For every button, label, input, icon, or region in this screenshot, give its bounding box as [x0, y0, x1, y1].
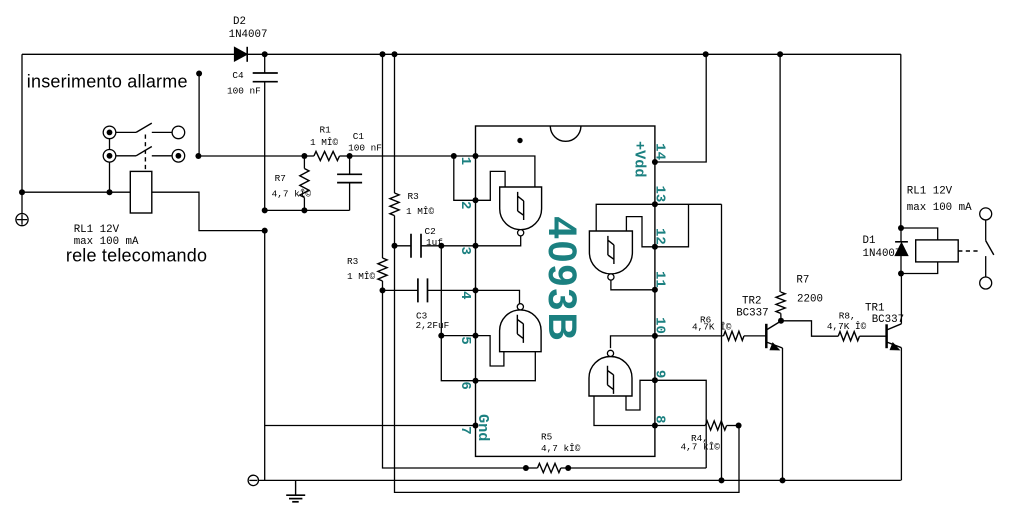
value label 1N4007 of D2 [229, 29, 268, 41]
svg-text:4,7 kÎ©: 4,7 kÎ© [272, 188, 312, 199]
wire gate D output to pin 10 [611, 336, 655, 348]
wire rail A mid segment [383, 281, 526, 468]
svg-text:TR2: TR2 [742, 295, 761, 307]
diode D2 1N4007 [234, 47, 247, 62]
wire TR1 collector up to D1 [900, 274, 902, 324]
wire tie pins 1-2 [454, 156, 476, 200]
label D1 [863, 235, 876, 247]
svg-text:13: 13 [651, 185, 667, 202]
relay contact SW1a right terminal (open) [172, 126, 185, 139]
IC pin 14 connection dot [652, 159, 658, 165]
IC pin 6 connection dot [473, 378, 479, 384]
IC pin number 11 [651, 271, 667, 288]
svg-text:1: 1 [457, 157, 473, 165]
relay contact SW1b right terminal [172, 150, 185, 163]
junction node pin14 riser / top wire [703, 51, 709, 57]
svg-text:inserimento allarme: inserimento allarme [27, 72, 188, 92]
label C3 [416, 311, 428, 322]
label C1 [353, 131, 365, 142]
switch SW1a arm [136, 123, 152, 132]
svg-text:8: 8 [651, 415, 667, 423]
label R7 (left) [275, 173, 286, 184]
wire rail A top segment [382, 54, 384, 258]
resistor R7 4.7k vertical [300, 156, 309, 210]
svg-text:TR1: TR1 [865, 303, 884, 315]
svg-text:100 nF: 100 nF [227, 86, 261, 97]
wire gate B output to pin 4 [476, 290, 520, 303]
wire gate A output to pin 3 [476, 236, 521, 246]
resistor R6 4.7k horizontal [655, 331, 766, 340]
wire SW1b left lead [116, 155, 136, 157]
IC pin number 10 [651, 317, 667, 334]
value label 1 M-ohm of upper R3 [406, 206, 435, 217]
dashed mechanical link of relay RL1 contacts [144, 135, 146, 172]
IC pin number 5 [457, 336, 473, 344]
transistor TR2 BC337 [766, 321, 782, 350]
wire relay coil right side to C4 rail [152, 192, 265, 230]
IC pin number 2 [457, 201, 473, 209]
ground symbol [286, 480, 305, 501]
IC pin number 4 [457, 291, 473, 299]
wire D1 top to relay coil [901, 228, 938, 240]
wire SW1b left terminal down to coil wire [109, 162, 111, 192]
wire alarm input vertical [198, 74, 200, 157]
wire TR2 emitter down to 0V [782, 348, 784, 480]
junction node pins 1-2 tie [451, 153, 457, 159]
NAND gate A (pins 1,2,3) schmitt [500, 187, 542, 236]
label max 100 mA (right relay) [907, 202, 972, 214]
wire pin 9 to gate D input [626, 380, 655, 410]
wire R5 right to pin 9 drop [568, 467, 706, 469]
wire pin 9 external down to R5 line [655, 380, 706, 468]
IC pin number 14 [651, 143, 667, 160]
value label 2200 of R7 [797, 293, 823, 305]
svg-text:R3: R3 [347, 256, 359, 267]
IC +Vdd label [631, 141, 649, 177]
wire D1 bottom to relay coil [901, 262, 938, 274]
svg-text:5: 5 [457, 336, 473, 344]
svg-text:max 100 mA: max 100 mA [907, 202, 972, 214]
wire pin 6 to gate B input [476, 352, 536, 381]
IC pin 5 connection dot [473, 333, 479, 339]
junction node rail B / C2 left [392, 243, 398, 249]
value label BC337 of TR2 [736, 307, 768, 319]
svg-text:BC337: BC337 [736, 307, 768, 319]
wire pin3 net down to pins 5/6 [441, 246, 475, 381]
svg-text:2,2FuF: 2,2FuF [416, 320, 450, 331]
svg-text:1 MÎ©: 1 MÎ© [347, 271, 376, 282]
IC pin number 3 [457, 247, 473, 255]
IC U1 4093B outline [476, 126, 655, 456]
switch output contact arm [986, 241, 994, 255]
junction node rail B / top wire [392, 51, 398, 57]
junction node R7-2200 rail / top wire [777, 51, 783, 57]
junction node R5 right terminal [565, 465, 571, 471]
junction node coil return / C4 rail [262, 228, 268, 234]
capacitor C2 1uf [395, 234, 442, 258]
wire switch output to R1 and pin 1 [198, 155, 304, 157]
junction node D2 cathode / C4 [262, 51, 268, 57]
label C4 [232, 70, 244, 81]
junction node pin3 net / pin 5 wire [438, 333, 444, 339]
junction node rail A / top wire [380, 51, 386, 57]
terminal dot of alarm input wire [196, 71, 202, 77]
IC name label 4093B [540, 217, 584, 343]
svg-text:1 MÎ©: 1 MÎ© [406, 206, 435, 217]
svg-text:14: 14 [651, 143, 667, 160]
svg-text:100 nF: 100 nF [348, 143, 382, 154]
label R5 [541, 431, 553, 442]
IC pin 11 connection dot [652, 287, 658, 293]
value label 4,7 k-ohm of R4 [681, 442, 721, 453]
wire pin 12 to gate C input [626, 217, 655, 247]
svg-text:D2: D2 [233, 16, 246, 28]
svg-text:6: 6 [457, 381, 473, 389]
value label 1 M-ohm of R1 [310, 137, 339, 148]
annotation text inserimento allarme [27, 72, 188, 92]
value label 2,2FuF of C3 [416, 320, 450, 331]
wire pin 1 to gate A input [476, 156, 535, 187]
svg-text:1N4007: 1N4007 [863, 248, 902, 260]
wire pin 13 to gate C input [596, 204, 655, 231]
svg-text:1N4007: 1N4007 [229, 29, 268, 41]
svg-text:4,7 kÎ©: 4,7 kÎ© [541, 443, 581, 454]
annotation text rele telecomando [66, 246, 207, 266]
NAND gate B (pins 4,5,6) schmitt [500, 304, 541, 352]
wire pin 13 right to feedback rail [655, 203, 722, 205]
wire pin 8 to gate D input [594, 396, 655, 426]
svg-text:12: 12 [651, 228, 667, 245]
output contact bottom terminal [980, 277, 992, 289]
value label 100 nF of C1 [348, 143, 382, 154]
value label 1uf of C2 [426, 237, 443, 248]
relay contact SW1a left terminal [103, 126, 116, 139]
IC pin number 1 [457, 157, 473, 165]
svg-text:C1: C1 [353, 131, 365, 142]
label C2 [425, 226, 436, 237]
IC pin 1 connection dot [473, 153, 479, 159]
capacitor C1 100 nF [337, 156, 362, 210]
IC pin 12 connection dot [652, 244, 658, 250]
svg-text:4093B: 4093B [540, 217, 584, 343]
IC pin number 13 [651, 185, 667, 202]
dashed mechanical link of output relay [958, 250, 979, 252]
IC Gnd label [474, 414, 492, 441]
svg-text:R7: R7 [796, 275, 809, 287]
svg-text:C2: C2 [425, 226, 436, 237]
junction node rail A / C3 left [380, 287, 386, 293]
svg-text:4,7 kÎ©: 4,7 kÎ© [681, 442, 721, 453]
svg-text:7: 7 [457, 426, 473, 434]
junction node R5 left terminal [523, 465, 529, 471]
wire TR2 collector to R8 [781, 321, 838, 336]
resistor R3 1M lower (in rail A) [378, 258, 387, 281]
svg-text:2200: 2200 [797, 293, 823, 305]
resistor R4 4.7k horizontal [655, 421, 739, 430]
junction node switch common / relay coil wire [107, 189, 113, 195]
value label 100 nF of C4 [227, 86, 261, 97]
junction node R1 right / C1 top [347, 153, 353, 159]
wire pin 2 to gate A input [476, 171, 506, 200]
resistor R5 4.7k horizontal [526, 463, 568, 472]
IC pin 3 connection dot [473, 243, 479, 249]
IC pin 4 connection dot [473, 287, 479, 293]
svg-text:4,7K Î©: 4,7K Î© [827, 321, 867, 332]
label RL1 12V (right relay) [907, 186, 953, 198]
junction node left rail / relay wire [19, 189, 25, 195]
junction node alarm input / switch output [195, 153, 201, 159]
svg-text:+Vdd: +Vdd [631, 141, 649, 177]
capacitor C4 100 nF [253, 54, 278, 210]
wire tie pins 12-13 [655, 204, 689, 247]
svg-text:R1: R1 [320, 125, 332, 136]
IC pin number 12 [651, 228, 667, 245]
IC pin number 6 [457, 381, 473, 389]
relay coil RL1 telecomando [130, 171, 152, 213]
diode D1 1N4007 [895, 228, 908, 274]
svg-text:C4: C4 [232, 70, 244, 81]
positive supply terminal symbol + [16, 214, 28, 226]
label TR1 [865, 303, 884, 315]
svg-text:RL1 12V: RL1 12V [74, 224, 120, 236]
svg-text:rele telecomando: rele telecomando [66, 246, 207, 266]
junction node D1 cathode / relay RL1 top [898, 225, 904, 231]
label R1 [320, 125, 332, 136]
IC pin 7 connection dot [473, 423, 479, 429]
svg-text:D1: D1 [863, 235, 876, 247]
value label 1N4007 of D1 [863, 248, 902, 260]
svg-text:9: 9 [651, 370, 667, 378]
IC pin 8 connection dot [652, 423, 658, 429]
wire TR1 emitter down to 0V corner [900, 348, 902, 481]
svg-text:3: 3 [457, 247, 473, 255]
label R7 (2200) [796, 275, 809, 287]
resistor R3 1M upper (in rail B) [390, 193, 399, 216]
junction node feedback rail / 0V wire [719, 477, 725, 483]
IC pin 13 connection dot [652, 201, 658, 207]
wire R7/C1 bottom link to C4 rail [265, 209, 350, 211]
wire + rail to relay coil [22, 191, 130, 193]
wire top supply down to R7 2200 [779, 54, 781, 292]
wire pin 14 to top supply [655, 54, 706, 162]
value label 4,7K ohm of R6 [692, 322, 732, 333]
resistor R1 1M horizontal [304, 151, 349, 160]
wire between SW1a and SW1b left terminals [109, 139, 111, 150]
wire C4 rail bottom segment [264, 231, 266, 481]
label max 100 mA (left relay) [74, 236, 139, 248]
value label 1 M-ohm of lower R3 [347, 271, 376, 282]
value label 4,7 k-ohm of R7 [272, 188, 312, 199]
relay contact SW1b left terminal [103, 150, 116, 163]
wire output contact moving side [985, 256, 987, 277]
label R4 [691, 433, 708, 444]
svg-text:1 MÎ©: 1 MÎ© [310, 137, 339, 148]
junction node C2 right / pin3 net [438, 243, 444, 249]
label R3 (lower) [347, 256, 359, 267]
junction node TR2 collector / R7 / R8 [778, 318, 784, 324]
IC pin number 7 [457, 426, 473, 434]
wire C4 rail to IC pin 7 [265, 425, 476, 427]
label RL1 12V (left relay) [74, 224, 120, 236]
wire to IC pin 5 [441, 335, 475, 337]
junction node TR2 emitter / 0V wire [780, 477, 786, 483]
wire left rail down from top wire [21, 54, 23, 213]
value label 4,7 k-ohm of R5 [541, 443, 581, 454]
IC pin 1 indicator dot [517, 138, 522, 143]
label R8 [839, 310, 856, 321]
IC pin number 8 [651, 415, 667, 423]
wire rail B top segment [394, 54, 396, 193]
wire R1-C1 node to IC pin 1 [350, 155, 476, 157]
transistor TR1 BC337 [887, 324, 902, 350]
svg-text:RL1 12V: RL1 12V [907, 186, 953, 198]
wire SW1b right lead [152, 155, 172, 157]
resistor R8 4.7k horizontal [838, 332, 886, 341]
svg-text:4: 4 [457, 291, 473, 299]
NAND gate D (pins 8,9,10) schmitt [589, 350, 632, 396]
svg-text:11: 11 [651, 271, 667, 288]
output contact top terminal [980, 208, 992, 220]
wire rail B lower segment [395, 216, 740, 493]
wire output contact fixed side [985, 220, 987, 241]
junction node R4 right terminal [736, 423, 742, 429]
junction node R7 bottom [301, 207, 307, 213]
wire SW1a left lead [116, 131, 136, 133]
svg-text:BC337: BC337 [872, 314, 904, 326]
wire bottom 0V rail [259, 479, 901, 481]
svg-text:2: 2 [457, 201, 473, 209]
switch SW1b arm [136, 147, 152, 156]
label R3 (upper) [408, 191, 420, 202]
resistor R7 2200 vertical [776, 292, 785, 321]
wire pin 5 to gate B input [476, 336, 504, 366]
IC pin 10 connection dot [652, 333, 658, 339]
wire top supply rail right segment [247, 53, 901, 55]
wire C2 right to IC pin 3 [441, 245, 475, 247]
relay coil RL1 output [916, 240, 959, 262]
junction node R1 left / R7 top [301, 153, 307, 159]
wire feedback rail down to 0V wire [721, 204, 723, 480]
label R6 [700, 314, 712, 325]
negative supply terminal symbol - [248, 475, 258, 485]
IC pin number 9 [651, 370, 667, 378]
svg-text:R3: R3 [408, 191, 420, 202]
capacitor C3 2,2uF [383, 278, 476, 302]
svg-text:R5: R5 [541, 431, 553, 442]
svg-text:4,7K Î©: 4,7K Î© [692, 322, 732, 333]
svg-text:R8,: R8, [839, 310, 856, 321]
IC pin 9 connection dot [652, 377, 658, 383]
wire top supply rail left segment [22, 53, 234, 55]
wire gate C output to pin 11 [611, 280, 655, 290]
svg-text:R7: R7 [275, 173, 286, 184]
value label BC337 of TR1 [872, 314, 904, 326]
IC pin 2 connection dot [473, 197, 479, 203]
wire SW1a right lead [152, 131, 172, 133]
label TR2 [742, 295, 761, 307]
svg-text:10: 10 [651, 317, 667, 334]
label D2 [233, 16, 246, 28]
NAND gate C (pins 11,12,13) schmitt [589, 231, 632, 280]
junction node D1 anode / relay RL1 bottom [898, 271, 904, 277]
value label 4,7K ohm of R8 [827, 321, 867, 332]
wire top supply right corner down [900, 54, 902, 228]
junction node C4 rail / RC bottom link [262, 207, 268, 213]
